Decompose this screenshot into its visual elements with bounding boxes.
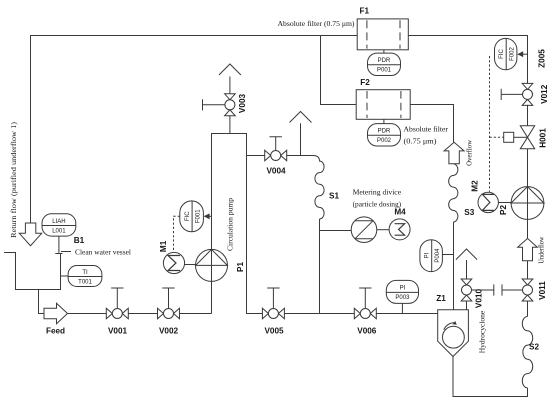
wire: signal dashed FIC F001 to motor M1 <box>174 216 180 252</box>
wire: P004 to riser <box>443 254 454 256</box>
svg-text:V003: V003 <box>238 93 247 113</box>
wire: V002 to pump riser corner <box>180 313 212 315</box>
wire: column top to valve V003 <box>229 116 231 134</box>
wire: S1 down to bottom line <box>319 219 321 314</box>
instrument PDR P001 <box>383 50 385 53</box>
node: vent chevron above V003 <box>219 64 241 75</box>
wire: V005 to V006 <box>284 313 354 315</box>
hydrocyclone Z1 <box>438 310 469 357</box>
svg-text:V001: V001 <box>108 326 128 335</box>
svg-text:LIAH: LIAH <box>52 219 65 225</box>
wire: V010 down to hydrocyclone top <box>466 301 468 310</box>
wire: suction riser through pump P1 up to column top <box>212 134 263 314</box>
svg-text:M1: M1 <box>159 240 168 252</box>
wire: signal dotted FIC F002 down to motor M2 <box>489 56 491 192</box>
svg-text:Feed: Feed <box>46 326 65 335</box>
svg-text:PI: PI <box>425 252 431 258</box>
valve V003 <box>225 94 236 116</box>
svg-text:M4: M4 <box>394 208 406 217</box>
wire: sensing line with arrow into FIC F002 <box>523 53 528 55</box>
svg-text:V005: V005 <box>264 326 284 335</box>
valve V011 <box>522 279 533 301</box>
svg-text:P1: P1 <box>236 262 245 272</box>
svg-text:V010: V010 <box>475 288 484 308</box>
wire: feed arrow to valve V001 <box>68 313 107 315</box>
svg-text:V004: V004 <box>266 167 286 176</box>
svg-text:F002: F002 <box>510 47 516 61</box>
valve H001 with actuator <box>520 126 534 149</box>
svg-text:P004: P004 <box>435 248 441 263</box>
svg-text:H001: H001 <box>539 128 548 148</box>
wire: motor M1 to pump P1 <box>185 264 196 266</box>
wire: sensing line with arrow into FIC F001 <box>209 215 212 217</box>
svg-text:Return flow (purified underflo: Return flow (purified underflow 1) <box>9 122 18 238</box>
metering device (rotary feeder) <box>351 217 377 243</box>
wire: vessel outlet down to feed line <box>39 290 45 314</box>
wire: V006 to hydrocyclone Z1 <box>376 313 437 315</box>
svg-text:PDR: PDR <box>378 58 391 64</box>
svg-text:Hydrocyclone: Hydrocyclone <box>478 310 487 353</box>
filter F1 absolute filter <box>357 19 408 50</box>
wire: V011 down to hose S2 <box>527 301 529 317</box>
wire: top return header from F1 to left riser <box>31 36 358 224</box>
wire: vent above V010 <box>466 260 468 279</box>
svg-text:V002: V002 <box>159 326 179 335</box>
instrument FIC F002 flow controller <box>495 38 517 69</box>
svg-text:Circulation pump: Circulation pump <box>225 198 234 251</box>
wire: leader to clean water vessel label <box>61 251 71 253</box>
wire: V004 to hose S1 with vent tee <box>287 155 313 157</box>
svg-text:Z005: Z005 <box>537 49 546 68</box>
motor M1 <box>163 252 184 273</box>
svg-text:S1: S1 <box>329 191 339 200</box>
wire: signal branch to valve H001 actuator <box>490 136 504 138</box>
hose S2 flexible connection <box>522 317 532 388</box>
valve V006 <box>354 308 376 319</box>
svg-text:Underflow: Underflow <box>536 236 545 263</box>
svg-text:P001: P001 <box>377 68 392 74</box>
svg-text:F2: F2 <box>360 78 370 87</box>
svg-text:L001: L001 <box>52 228 66 234</box>
wire: H001 to pump P2 <box>527 149 529 239</box>
svg-text:(particle dosing): (particle dosing) <box>353 200 402 209</box>
svg-text:V012: V012 <box>540 84 549 104</box>
svg-text:PI: PI <box>400 286 406 292</box>
wire: S2 to bottom line to hydrocyclone apex <box>453 357 528 397</box>
wire: arrow to valve V011 <box>527 261 529 279</box>
svg-text:TI: TI <box>82 270 88 276</box>
svg-text:Overflow: Overflow <box>465 140 474 166</box>
svg-text:Clean water vessel: Clean water vessel <box>75 247 132 256</box>
node: return flow arrow into vessel B1 <box>19 223 41 246</box>
svg-text:P003: P003 <box>395 295 410 301</box>
wire: branch down to filter F2 inlet <box>321 36 357 105</box>
valve V001 <box>106 308 128 319</box>
svg-text:B1: B1 <box>74 236 85 245</box>
svg-text:F001: F001 <box>196 209 202 223</box>
svg-text:S2: S2 <box>529 342 539 351</box>
svg-text:P002: P002 <box>377 138 392 144</box>
instrument PDR P002 <box>383 119 385 123</box>
svg-text:V011: V011 <box>538 281 547 300</box>
node: Overflow flow arrow <box>444 142 464 164</box>
valve V010 <box>461 279 472 301</box>
svg-text:Metering divice: Metering divice <box>353 188 402 197</box>
wire: F1 outlet to right riser <box>408 36 527 84</box>
valve V012 <box>522 83 533 105</box>
wire: S3 down to hydrocyclone overflow port <box>453 222 455 310</box>
instrument TI T001 temperature <box>60 275 68 277</box>
svg-text:(0.75 μm): (0.75 μm) <box>404 136 437 145</box>
wire: V012 to H001 <box>527 105 529 126</box>
svg-text:S3: S3 <box>464 208 474 217</box>
instrument PI P004 pressure <box>420 240 443 272</box>
hose S3 flexible connection <box>449 164 458 222</box>
hose S1 flexible connection <box>313 156 324 220</box>
wire: vent line above V003 <box>229 77 231 95</box>
valve V004 <box>265 150 287 161</box>
svg-text:F1: F1 <box>360 6 370 15</box>
node: Underflow flow arrow <box>518 238 538 260</box>
wire: column to valve V004 <box>247 155 265 157</box>
svg-text:T001: T001 <box>78 279 92 285</box>
svg-text:Absolute filter (0.75 μm): Absolute filter (0.75 μm) <box>278 19 355 28</box>
instrument FIC F001 flow controller <box>180 201 204 232</box>
valve V005 <box>262 308 284 319</box>
valve V002 <box>158 308 180 319</box>
motor M2 <box>478 192 498 212</box>
svg-text:PDR: PDR <box>378 129 391 135</box>
svg-text:Absolute filter: Absolute filter <box>404 124 449 133</box>
pump P2 <box>511 187 544 220</box>
node: Feed flow arrow <box>44 303 68 323</box>
node: rotation arrow on cyclone <box>444 323 455 330</box>
vessel B1 clean water vessel <box>4 253 61 290</box>
svg-text:V006: V006 <box>357 326 377 335</box>
svg-text:M2: M2 <box>471 180 480 192</box>
motor M4 <box>389 219 410 240</box>
svg-text:FIC: FIC <box>185 211 191 221</box>
svg-text:P2: P2 <box>499 205 508 215</box>
svg-text:Z1: Z1 <box>436 294 446 303</box>
instrument PI P003 pressure <box>401 303 403 313</box>
wire: F2 outlet to overflow riser <box>410 105 453 143</box>
wire: metering device to motor M4 <box>377 229 389 231</box>
node: vent chevron above V010 <box>456 249 477 260</box>
instrument LIAH L001 level alarm <box>55 236 62 253</box>
node: vent chevron <box>290 112 312 123</box>
wire: V001 to V002 <box>128 313 157 315</box>
svg-text:FIC: FIC <box>499 49 505 59</box>
wire: vent riser at tee <box>300 123 302 155</box>
filter F2 absolute filter <box>356 90 410 120</box>
pump P1 circulation pump <box>196 249 228 281</box>
wire: motor M2 to pump P2 <box>498 202 511 204</box>
wire: tap to metering device <box>320 230 352 232</box>
